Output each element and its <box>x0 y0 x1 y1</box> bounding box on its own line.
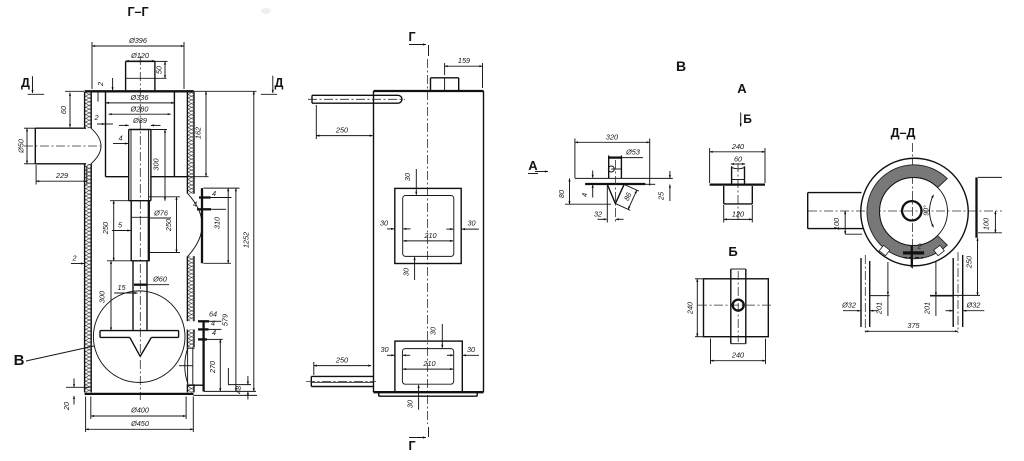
dim 100 (left) <box>845 233 862 235</box>
dim 100 (right) <box>978 232 1002 234</box>
svg-text:Ø32: Ø32 <box>841 301 856 310</box>
dim 320 <box>574 139 576 179</box>
label Ø76 <box>150 217 172 219</box>
svg-text:Ø50: Ø50 <box>17 139 26 154</box>
svg-text:Д: Д <box>275 76 284 90</box>
upper right nozzle flange face <box>201 188 203 263</box>
vertical plate 120 <box>723 186 725 204</box>
svg-text:30: 30 <box>467 345 475 354</box>
top plate <box>85 90 194 92</box>
dim Ø89 <box>119 124 129 126</box>
svg-text:4: 4 <box>118 134 122 143</box>
centerlines <box>912 143 914 270</box>
dim 1252 <box>253 91 255 391</box>
dim 50 (nozzle height) <box>164 61 166 78</box>
svg-text:32: 32 <box>594 210 602 219</box>
svg-text:270: 270 <box>208 361 217 374</box>
notch left (support lug) <box>879 245 890 255</box>
svg-text:60: 60 <box>59 106 68 114</box>
boss cylinder 60 <box>731 166 733 183</box>
dim 30 right (upper flange) <box>446 228 453 230</box>
anchor agitator T-bar <box>100 330 179 332</box>
dim 20 <box>66 386 90 388</box>
left jacket wall (hatched) upper <box>85 92 92 128</box>
dim Ø53 <box>609 156 622 158</box>
svg-text:Ø280: Ø280 <box>130 104 149 113</box>
svg-text:210: 210 <box>422 359 435 368</box>
svg-text:В: В <box>676 58 686 74</box>
svg-text:Б: Б <box>743 112 752 126</box>
dim 250 (right of tube) <box>149 196 180 198</box>
svg-text:Д–Д: Д–Д <box>891 126 916 140</box>
dim 30 bottom (upper flange) <box>414 257 416 280</box>
dim 15 <box>114 292 137 294</box>
svg-text:Б: Б <box>728 244 737 259</box>
left drop pipe Ø32 <box>860 258 862 327</box>
svg-text:2: 2 <box>916 242 921 251</box>
svg-text:48: 48 <box>234 385 243 394</box>
dim 30 top (upper flange) <box>415 169 417 195</box>
svg-text:2: 2 <box>93 113 98 122</box>
dim 30 top (lower flange) <box>441 324 443 348</box>
svg-text:375: 375 <box>907 321 920 330</box>
lower right nozzle flange face <box>202 321 204 391</box>
dim 25 <box>669 171 671 178</box>
right drop pipe Ø32 <box>952 258 954 327</box>
svg-text:15: 15 <box>117 283 126 292</box>
svg-text:320: 320 <box>606 133 618 142</box>
svg-text:Г: Г <box>408 30 415 44</box>
top nozzle Ø120 <box>125 61 127 91</box>
dim 60 <box>731 163 745 165</box>
dim 159 <box>444 63 446 75</box>
svg-text:60: 60 <box>734 155 742 164</box>
svg-text:30: 30 <box>380 345 388 354</box>
svg-text:201: 201 <box>923 302 932 315</box>
main vertical centerline <box>139 56 141 400</box>
svg-text:30: 30 <box>467 219 475 228</box>
weld circle on pin <box>608 166 614 172</box>
dim 32 <box>606 186 608 223</box>
svg-text:Ø120: Ø120 <box>130 51 149 60</box>
base plate <box>379 395 478 397</box>
dim 4 (tube wall) <box>113 143 128 145</box>
dim 240 (left) <box>695 278 704 280</box>
lower right nozzle opening: wall lines continue <box>187 347 189 384</box>
svg-text:Ø336: Ø336 <box>130 93 150 102</box>
tube bottom / coupling top <box>129 200 151 202</box>
svg-text:А: А <box>528 158 538 173</box>
lower right nozzle walls <box>198 320 209 322</box>
svg-text:201: 201 <box>875 302 884 315</box>
outer circle <box>861 158 969 266</box>
dim 162 <box>187 176 208 178</box>
square plate 240x240 <box>704 279 769 337</box>
dim 201 (right) <box>930 295 953 297</box>
svg-text:310: 310 <box>213 217 222 229</box>
cylinder bottom <box>374 391 484 393</box>
svg-text:120: 120 <box>732 209 744 218</box>
svg-text:Ø60: Ø60 <box>152 275 167 284</box>
svg-text:30: 30 <box>429 327 438 335</box>
svg-text:4: 4 <box>211 319 215 328</box>
svg-text:80: 80 <box>557 190 566 198</box>
dim 210 (lower flange) <box>403 368 453 370</box>
dim 60 (plate to pipe) <box>69 93 71 128</box>
svg-text:250: 250 <box>335 356 348 365</box>
svg-text:25: 25 <box>657 191 666 201</box>
dim 201 (left) <box>870 295 890 297</box>
section mark Б (arrow down) <box>740 113 742 127</box>
centerlines <box>698 304 773 306</box>
dim Ø396 <box>92 45 184 47</box>
svg-text:162: 162 <box>194 127 203 139</box>
bottom plate <box>85 393 194 395</box>
dim 2 (top plate thickness) <box>112 78 114 90</box>
faint smudge <box>261 8 271 14</box>
cylinder top plate <box>374 90 484 92</box>
svg-text:159: 159 <box>458 56 470 65</box>
mixing sphere circle <box>93 291 185 383</box>
svg-text:4: 4 <box>580 193 589 197</box>
dim 240 (bottom) <box>710 339 712 365</box>
lower right nozzle saddle arc <box>185 347 188 384</box>
svg-text:А: А <box>737 81 747 96</box>
lower square flange inner <box>402 349 453 385</box>
dim Ø336 <box>106 102 175 104</box>
wall thickness 4 marks (upper nozzle) <box>199 196 211 198</box>
dim 80 <box>565 203 611 205</box>
dim 210 (upper flange) <box>403 240 453 242</box>
svg-text:30: 30 <box>403 173 412 181</box>
svg-text:Ø400: Ø400 <box>130 406 149 415</box>
top nozzle (middle view) <box>431 77 459 79</box>
dim 375 <box>865 330 958 332</box>
dim 30 bottom (lower flange) <box>418 385 420 410</box>
svg-text:1252: 1252 <box>242 232 251 248</box>
dim Ø450 <box>85 397 87 433</box>
svg-text:300: 300 <box>152 158 161 170</box>
90° angle dim <box>930 195 934 228</box>
inner vessel bottom shelf <box>106 176 129 178</box>
svg-text:210: 210 <box>423 231 436 240</box>
guide tube Ø89 <box>129 129 151 131</box>
svg-text:90°: 90° <box>923 205 931 216</box>
plate end arrows <box>375 90 381 92</box>
svg-text:Г–Г: Г–Г <box>127 5 148 19</box>
notch right (support lug) <box>934 245 945 255</box>
bar top line <box>575 177 673 179</box>
svg-text:2: 2 <box>96 82 105 87</box>
dim 48 <box>228 384 251 386</box>
svg-text:20: 20 <box>62 402 71 411</box>
bar strip through <box>730 269 732 344</box>
bar (240 plate, edge on) <box>710 183 765 185</box>
svg-text:250: 250 <box>335 126 348 135</box>
bottom plate bar + label 2 <box>903 251 924 254</box>
dim 120 <box>723 205 725 223</box>
dim Ø120 <box>126 60 155 62</box>
dim 310 <box>227 188 229 263</box>
dim 2 (inner wall thickness) <box>97 123 105 125</box>
vessel centerline <box>427 59 429 424</box>
svg-text:30: 30 <box>380 219 388 228</box>
svg-text:4: 4 <box>193 200 197 209</box>
coupling Ø76 <box>130 201 132 261</box>
upper right nozzle Ø310 saddle arc <box>188 194 202 257</box>
svg-text:Г: Г <box>408 439 415 453</box>
dim 579 <box>235 188 237 391</box>
upper right nozzle edges <box>203 187 239 189</box>
dim 4 (bar thickness) <box>592 171 594 178</box>
pin Ø53 <box>608 156 610 179</box>
right flange (edge view) <box>975 177 977 237</box>
dim 250 (upper pipe) <box>315 105 317 139</box>
dim 250 (lower pipe) <box>313 362 315 375</box>
svg-text:Ø89: Ø89 <box>132 116 147 125</box>
agitator shaft Ø60 <box>132 261 134 331</box>
svg-text:50: 50 <box>155 66 164 74</box>
svg-text:229: 229 <box>55 171 68 180</box>
dim Ø280 <box>109 113 171 115</box>
dim 240 <box>709 148 711 183</box>
lower square flange outer <box>395 341 462 392</box>
V blade <box>607 184 615 203</box>
dim Ø400 <box>90 397 92 420</box>
dim 30 right (lower flange) <box>447 354 453 356</box>
svg-text:250: 250 <box>965 256 974 269</box>
left pipe stub <box>808 192 862 194</box>
left jacket wall (hatched) lower <box>85 164 92 393</box>
upper left pipe (rounded end) <box>312 94 398 96</box>
dim 229 <box>35 165 37 185</box>
svg-text:30: 30 <box>402 268 411 276</box>
dim 5 <box>112 230 131 232</box>
lower left pipe <box>311 375 373 377</box>
inner circle of ring <box>880 178 948 246</box>
svg-text:Ø53: Ø53 <box>625 148 640 157</box>
svg-text:579: 579 <box>221 314 230 326</box>
svg-text:240: 240 <box>686 302 695 315</box>
svg-text:Ø76: Ø76 <box>153 209 169 218</box>
svg-text:250: 250 <box>164 219 173 232</box>
svg-text:30: 30 <box>406 400 415 408</box>
svg-text:Ø396: Ø396 <box>128 36 148 45</box>
svg-text:2: 2 <box>71 254 76 263</box>
dim 250 (right) <box>977 238 979 296</box>
cylinder right edge <box>483 91 485 392</box>
svg-text:В: В <box>14 352 25 369</box>
right jacket wall (hatched) segments <box>187 92 194 194</box>
center pin circle <box>733 300 744 311</box>
svg-text:4: 4 <box>212 328 216 337</box>
svg-text:300: 300 <box>98 291 107 303</box>
slanted dim 86 <box>624 184 639 191</box>
gray ring with 90° sector opening <box>867 165 947 259</box>
svg-text:Ø450: Ø450 <box>130 419 149 428</box>
dim 30 left (upper flange) <box>387 228 394 230</box>
svg-text:64: 64 <box>209 310 217 319</box>
dim 30 left (lower flange) <box>387 354 394 356</box>
center hub circle <box>902 201 921 220</box>
svg-text:100: 100 <box>832 218 841 230</box>
upper square flange outer <box>395 188 461 263</box>
svg-text:Д: Д <box>21 76 30 90</box>
svg-text:240: 240 <box>731 351 744 360</box>
upper square flange inner <box>403 196 454 257</box>
dim 300 (lower) <box>110 261 112 331</box>
dim 270 <box>219 339 221 391</box>
dim Ø50 <box>24 127 35 129</box>
svg-text:Ø32: Ø32 <box>966 301 981 310</box>
lower nozzle centerline <box>179 365 193 367</box>
agitator V blade <box>130 337 140 356</box>
inner vessel walls <box>105 93 107 177</box>
bar blackened (4 thick) <box>585 183 645 185</box>
svg-text:240: 240 <box>731 142 744 151</box>
dim 250 (left) <box>113 201 115 261</box>
svg-text:4: 4 <box>212 189 216 198</box>
side pipe Ø50 <box>35 127 86 129</box>
cylinder left edge <box>373 91 375 392</box>
dim 300 (upper) <box>151 129 167 131</box>
svg-text:250: 250 <box>101 222 110 235</box>
label Ø60 <box>134 284 147 286</box>
svg-text:100: 100 <box>982 218 991 230</box>
